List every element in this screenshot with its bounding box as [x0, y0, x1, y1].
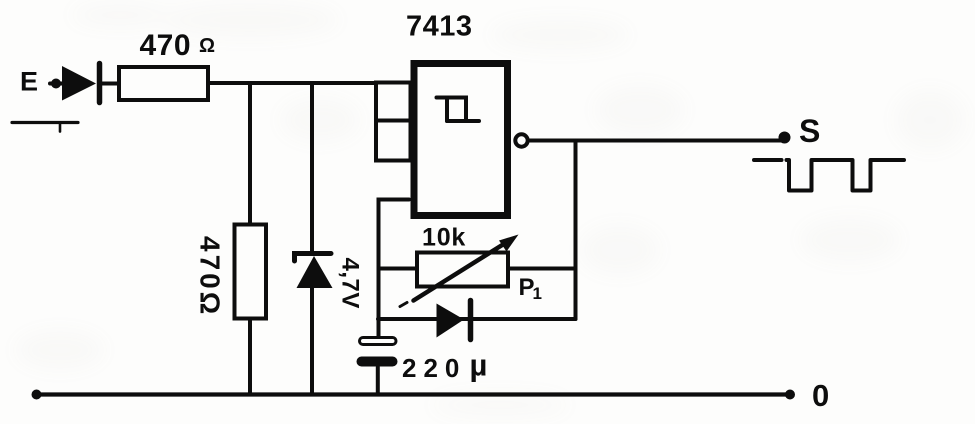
svg-text:Ω: Ω — [199, 35, 215, 57]
svg-text:7413: 7413 — [406, 11, 473, 43]
svg-text:470Ω: 470Ω — [195, 236, 226, 317]
svg-text:S: S — [799, 113, 820, 149]
svg-text:E: E — [20, 67, 38, 97]
svg-text:1: 1 — [533, 284, 542, 303]
svg-text:0: 0 — [812, 378, 829, 413]
svg-text:µ: µ — [470, 348, 488, 383]
svg-text:470: 470 — [140, 29, 192, 62]
svg-text:10k: 10k — [422, 223, 466, 251]
svg-text:220: 220 — [402, 353, 466, 383]
svg-text:4,7V: 4,7V — [337, 258, 364, 309]
